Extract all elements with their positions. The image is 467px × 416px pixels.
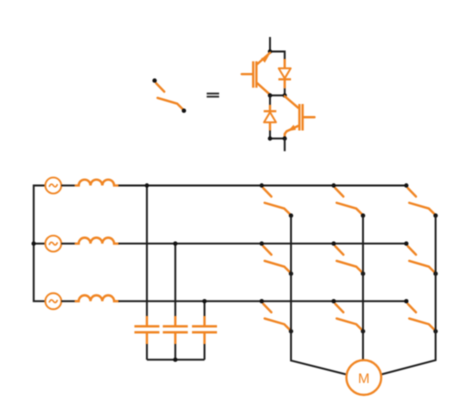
inductor LA bbox=[76, 180, 119, 186]
bidirectional switch symbol (legend) bbox=[152, 78, 186, 112]
switch S21 bbox=[260, 241, 294, 275]
equals sign bbox=[207, 93, 219, 98]
wire: filter bus 2 (phase B tap) bbox=[174, 244, 176, 316]
node: top junction bbox=[268, 49, 272, 53]
wire: D1 to mid junction bbox=[284, 88, 286, 95]
svg-text:M: M bbox=[358, 370, 370, 386]
node: bottom junction left bbox=[268, 136, 272, 140]
capacitor C2 bbox=[163, 316, 188, 344]
inductor LB bbox=[76, 238, 119, 244]
wire: C3 bottom lead bbox=[204, 344, 206, 360]
wire: bottom junction link bbox=[270, 138, 285, 140]
switch S11 bbox=[260, 183, 294, 218]
switch S23 bbox=[404, 241, 438, 275]
wire: C2 bottom lead bbox=[174, 344, 176, 360]
capacitor C1 bbox=[134, 316, 159, 344]
wire: bottom terminal tail bbox=[284, 139, 286, 152]
node: phase B / bus 2 junction bbox=[173, 241, 177, 245]
diode D1 bbox=[278, 59, 291, 88]
wire: output column u to motor bbox=[291, 216, 347, 375]
IGBT T1 bbox=[242, 53, 270, 95]
wire: mid junction to diode D2 bbox=[269, 95, 271, 105]
node: capacitor star point bbox=[173, 358, 177, 362]
node: mid junction right bbox=[283, 93, 287, 97]
node: phase A / bus 1 junction bbox=[145, 183, 149, 187]
node: bottom junction right bbox=[283, 136, 287, 140]
wire: mid junction link bbox=[270, 94, 285, 96]
capacitor C3 bbox=[192, 316, 217, 344]
AC source VC bbox=[45, 293, 61, 309]
switch S22 bbox=[332, 241, 366, 275]
wire: top terminal tail bbox=[269, 37, 271, 52]
diode D2 bbox=[264, 105, 277, 130]
switch S12 bbox=[332, 183, 366, 218]
wire: output column v to motor bbox=[362, 216, 364, 361]
switch S31 bbox=[260, 299, 294, 334]
wire: capacitor star rail bbox=[147, 359, 205, 361]
wire: output column w to motor bbox=[381, 216, 436, 375]
node: phase C / bus 3 junction bbox=[202, 299, 206, 303]
motor M bbox=[346, 360, 381, 395]
wire: VA to LA bbox=[61, 185, 75, 187]
wire: phase B row line bbox=[118, 243, 406, 245]
wire: top junction to diode D1 bbox=[270, 52, 285, 60]
wire: phase A row line bbox=[118, 185, 406, 187]
switch S32 bbox=[332, 299, 366, 334]
wire: VB to LB bbox=[61, 243, 75, 245]
wire: filter bus 3 (phase C tap) bbox=[204, 301, 206, 316]
wire: filter bus 1 (phase A tap) bbox=[146, 186, 148, 317]
inductor LC bbox=[76, 295, 119, 301]
AC source VA bbox=[45, 178, 61, 194]
node: neutral/phase B junction bbox=[32, 241, 36, 245]
wire: input neutral bus (left vertical) bbox=[34, 186, 46, 302]
wire: phase B source stub bbox=[34, 243, 46, 245]
IGBT T2 bbox=[285, 96, 315, 138]
wire: phase C row line bbox=[118, 300, 406, 302]
switch S33 bbox=[404, 299, 438, 334]
AC source VB bbox=[45, 236, 61, 252]
switch S13 bbox=[404, 183, 438, 218]
wire: D2 to bottom junction bbox=[269, 130, 271, 138]
wire: VC to LC bbox=[61, 300, 75, 302]
wire: C1 bottom lead bbox=[146, 344, 148, 360]
node: mid junction left bbox=[268, 93, 272, 97]
